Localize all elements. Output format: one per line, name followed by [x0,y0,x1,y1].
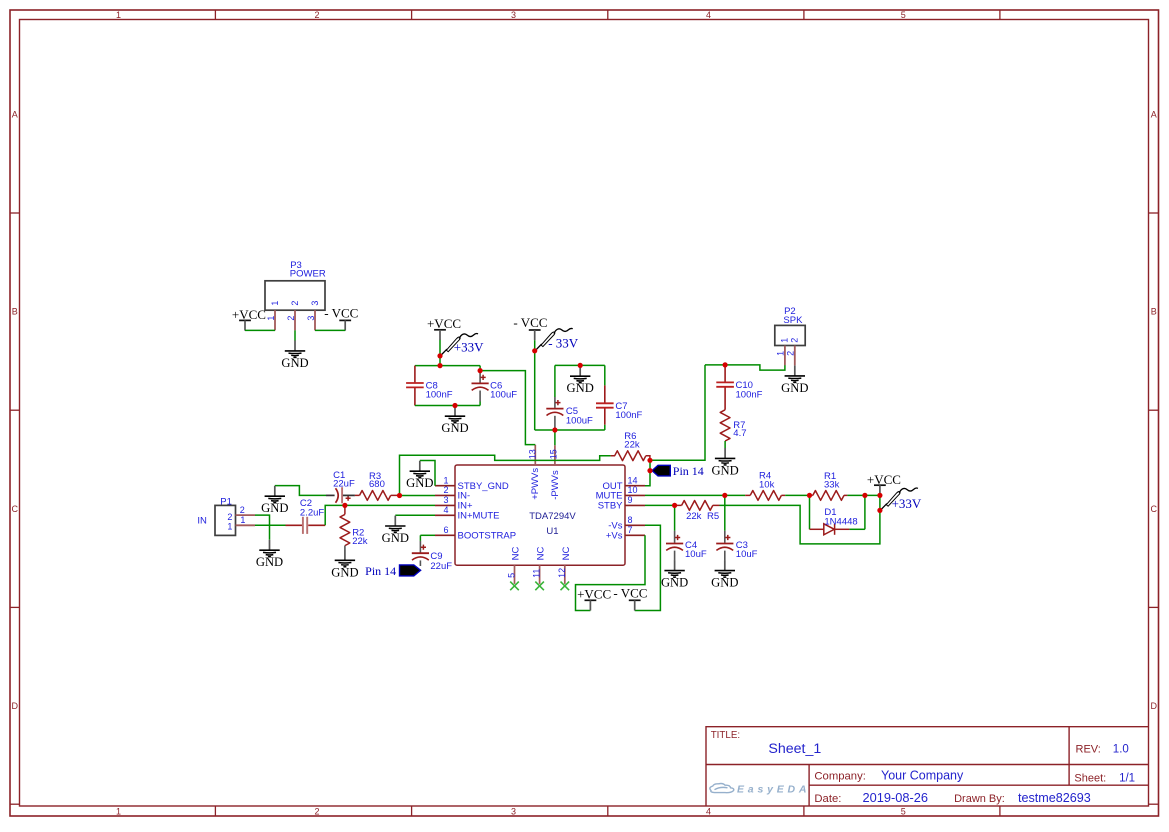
svg-text:2: 2 [286,316,296,321]
resistor R2 leads [344,505,346,514]
svg-text:9: 9 [628,495,633,505]
wire U1 pin1 to ground elbow [420,461,435,486]
svg-text:1: 1 [776,351,786,356]
svg-text:4: 4 [443,505,448,515]
svg-text:Company:: Company: [814,770,866,782]
connector P3 body [265,281,325,310]
svg-text:C: C [11,504,18,514]
junction IN+ node [342,503,347,508]
U1 top pin stubs pins 13,15 [535,445,555,465]
row ticks left/right [10,213,1159,804]
svg-text:6: 6 [443,525,448,535]
wire rail to C6 node [479,366,481,371]
svg-text:3: 3 [511,807,516,817]
resistor R6 body [615,451,646,461]
svg-text:1/1: 1/1 [1119,772,1135,784]
svg-text:22uF: 22uF [333,479,355,490]
svg-text:3: 3 [310,301,320,306]
capacitor C9 [419,535,421,541]
resistor R2 body [340,514,350,545]
power symbol -VCC bottom [613,586,647,611]
svg-text:+VCC: +VCC [232,307,266,322]
wire R6 node to flag [649,460,651,470]
U1 bottom pin stubs pins 5,11,12 [515,565,565,584]
power symbol -VCC top [513,315,547,340]
wire flag node to U1 pin14 [645,471,650,486]
svg-text:10uF: 10uF [736,549,758,560]
wire rail to C7 [604,365,606,385]
svg-text:3: 3 [511,10,516,20]
svg-text:5: 5 [901,10,906,20]
svg-text:12: 12 [557,568,567,578]
svg-text:Sheet:: Sheet: [1074,772,1106,784]
capacitor C1 [326,494,335,496]
power symbol +VCC above C8 [427,316,461,340]
U1 right pin lines pins 14,10,9,8,7 [625,486,645,536]
svg-text:GND: GND [406,476,433,490]
resistor R3 body [360,491,391,501]
wire MUTE node to C3 [724,495,726,530]
svg-text:+33V: +33V [454,339,484,354]
svg-text:GND: GND [567,381,594,395]
junction +VCC probe node [437,353,442,358]
U1 pin names [458,481,624,542]
capacitor C6 plates [472,375,489,391]
svg-text:100nF: 100nF [736,389,763,400]
svg-text:Pin 14: Pin 14 [365,564,396,578]
svg-text:22uF: 22uF [430,561,452,572]
svg-text:- VCC: - VCC [324,305,358,320]
svg-text:3: 3 [443,495,448,505]
wire IN- node to U1 pin2 [400,495,436,497]
svg-text:1: 1 [780,338,790,343]
column numbers [116,10,906,817]
wire D1 left vertical [809,495,811,529]
title block frame [706,727,1149,806]
svg-text:10k: 10k [759,479,775,490]
svg-text:Drawn By:: Drawn By: [954,793,1005,805]
op-amp U1 TDA7294V body [455,465,625,565]
junction MUTE/C3 node [722,493,727,498]
wire IN+ row to U1 pin3 [345,504,435,506]
svg-text:SPK: SPK [783,315,803,326]
svg-text:Your Company: Your Company [881,768,964,782]
svg-text:STBY: STBY [598,501,623,512]
svg-text:+PWVs: +PWVs [530,468,541,500]
ground GND at U1 pin4 [382,516,409,545]
svg-text:10uF: 10uF [685,549,707,560]
svg-text:Pin 14: Pin 14 [673,464,704,478]
svg-text:11: 11 [532,569,542,578]
power symbol +VCC right [867,472,901,495]
svg-text:IN+MUTE: IN+MUTE [458,511,500,522]
svg-text:GND: GND [711,576,738,590]
wire STBY node to C4 [674,505,676,530]
svg-text:B: B [12,307,18,317]
ground GND left of C1 [261,486,288,515]
ground GND under C3 [711,560,738,589]
svg-text:22k: 22k [352,536,368,547]
resistor R5 body [682,501,713,511]
junction bottom rail to pin15 [552,427,557,432]
P2 pin stubs [785,346,795,366]
wire C8/C6 top rail [415,365,480,367]
resistor R4 body [750,491,781,501]
junction top rail GND tap [578,363,583,368]
svg-text:A: A [1151,110,1157,120]
U1 pin numbers [443,475,637,535]
wire C8/C6 bottom rail [415,405,480,407]
capacitor C10 [724,365,726,410]
svg-text:GND: GND [281,356,308,370]
connector P2 body [775,325,805,345]
junction R1/D1 right node [862,493,867,498]
svg-text:GND: GND [661,576,688,590]
svg-text:4.7: 4.7 [733,428,746,439]
voltage probe +33V right [881,488,918,510]
junction C10 top node [723,362,728,367]
wire U1 pin10 MUTE row [645,494,745,496]
wire IN+MUTE to U1 pin4 [395,514,435,516]
svg-text:R5: R5 [707,511,719,522]
ground GND at P2 pin2 [781,366,808,395]
wire C5/C7 top rail [555,364,605,366]
svg-text:1: 1 [266,316,276,321]
svg-text:1: 1 [240,515,245,525]
junction top rail at +VCC [437,363,442,368]
svg-text:10: 10 [628,485,638,495]
svg-text:1: 1 [443,475,448,485]
wire D1 to right vertical [849,528,865,530]
svg-text:NC: NC [536,547,547,561]
resistor R1 body [813,491,844,501]
capacitor C5 plates [546,400,563,416]
svg-text:U1: U1 [546,526,558,537]
svg-text:2019-08-26: 2019-08-26 [863,790,928,805]
svg-text:P1: P1 [220,496,232,507]
svg-text:REV:: REV: [1076,744,1101,756]
ground GND under R2 [331,550,358,579]
svg-text:+VCC: +VCC [867,472,901,487]
svg-text:2: 2 [227,512,232,522]
wire C5/C7 bottom rail [535,429,605,431]
wire P1 pin2 to ground [255,515,270,540]
svg-text:2: 2 [314,10,319,20]
wire rail down to U1 pin15 [554,430,556,445]
svg-text:B: B [1151,307,1157,317]
svg-text:TDA7294V: TDA7294V [529,511,576,522]
svg-text:+33V: +33V [892,496,922,511]
net port flag Pin 14 (right) [652,465,670,476]
junction +VCC node right [877,493,882,498]
ground GND at P1 pin2 [256,540,283,569]
wire R4 to R1 node [785,494,809,496]
svg-text:TITLE:: TITLE: [711,730,740,741]
svg-text:GND: GND [441,421,468,435]
svg-text:testme82693: testme82693 [1018,791,1091,805]
svg-text:8: 8 [628,515,633,525]
svg-text:GND: GND [331,565,358,579]
ground GND at P3 pin2 [281,341,308,370]
wire P2 pin1 to OUT rail [705,365,785,370]
svg-text:D: D [11,701,18,711]
ground GND under R7 [711,448,738,477]
svg-text:15: 15 [549,449,559,459]
wire feedback IN- to R6 [400,455,611,495]
svg-text:1: 1 [116,10,121,20]
svg-text:13: 13 [528,449,538,459]
svg-text:4: 4 [706,807,711,817]
capacitor C10 plates [716,382,734,386]
wire GND elbow to C1 [275,486,326,496]
wire P3 pin3 to -VCC [315,329,345,331]
junction -VCC probe node [532,348,537,353]
resistor R7 body [720,410,730,441]
svg-text:EasyEDA: EasyEDA [737,783,810,795]
EasyEDA logo [710,784,734,793]
svg-text:+VCC: +VCC [577,587,611,602]
svg-text:2: 2 [290,301,300,306]
svg-text:GND: GND [256,555,283,569]
ground GND above C5/C7 [567,366,594,395]
capacitor C3 plates [716,535,733,551]
junction net port node [647,468,652,473]
wire P3 pin1 to +VCC [245,329,275,331]
svg-text:100uF: 100uF [490,389,517,400]
svg-text:100nF: 100nF [615,410,642,421]
wire U1 pin8 -Vs to -VCC [635,525,661,610]
capacitor C7 plates [596,403,614,407]
wire -VCC down to C5/C7 rail [534,340,536,430]
svg-text:2: 2 [785,351,795,356]
svg-text:GND: GND [711,463,738,477]
capacitor C2 [286,524,326,526]
svg-text:- VCC: - VCC [613,586,647,601]
svg-text:IN: IN [197,516,207,527]
wire R6 node up to C10/P2 rail [650,365,705,460]
capacitor C4 plates [666,535,683,551]
wire rail to C5 [554,365,556,397]
ground GND at U1 pin1 [406,461,433,490]
wire U1 pin6 to C9 [420,534,435,536]
svg-text:Date:: Date: [814,793,841,805]
svg-text:NC: NC [511,547,522,561]
wire +VCC down to rail [439,340,441,366]
resistor R1 leads [810,494,848,496]
svg-text:22k: 22k [686,511,702,522]
voltage probe +33V on +VCC [441,333,478,355]
svg-text:680: 680 [369,479,385,490]
svg-text:1.0: 1.0 [1113,744,1129,756]
capacitor C8 [414,366,416,406]
junction probe node right [877,508,882,513]
svg-text:3: 3 [306,316,316,321]
svg-text:+VCC: +VCC [427,316,461,331]
junction R6 output node [647,458,652,463]
P3 pin stubs 1,2,3 [275,310,315,330]
svg-text:Sheet_1: Sheet_1 [768,741,821,757]
resistor R4 leads [745,494,785,496]
svg-text:1: 1 [227,522,232,532]
wire D1 right vertical [864,495,866,529]
power symbol +VCC bottom [577,587,611,611]
resistor R3 leads [355,494,400,496]
ground GND under C4 [661,560,688,589]
svg-text:1: 1 [270,301,280,306]
capacitor C6 [479,371,481,402]
wire STBY pullup path [720,495,880,544]
wire P3 pin2 to ground [294,330,296,340]
svg-text:-PWVs: -PWVs [550,470,561,500]
svg-text:A: A [12,110,18,120]
resistor R5 leads [675,504,720,506]
svg-text:2: 2 [314,807,319,817]
svg-text:+Vs: +Vs [606,531,623,542]
row letters [11,110,1157,712]
svg-text:1: 1 [116,807,121,817]
svg-text:2.2uF: 2.2uF [300,507,324,518]
svg-text:14: 14 [628,475,638,485]
wire C6 bottom tail [479,402,481,406]
svg-text:100uF: 100uF [566,415,593,426]
wire P1 pin1 to C2 [255,524,286,526]
svg-text:C: C [1150,504,1157,514]
svg-text:- VCC: - VCC [513,315,547,330]
svg-text:5: 5 [901,807,906,817]
svg-text:2: 2 [790,338,800,343]
svg-text:D: D [1150,701,1157,711]
svg-text:GND: GND [382,531,409,545]
junction bottom rail node [452,403,457,408]
wire U1 pin7 +Vs to +VCC [576,535,646,610]
capacitor C9 plates [412,545,429,561]
svg-text:4: 4 [706,10,711,20]
svg-text:100nF: 100nF [426,389,453,400]
svg-text:POWER: POWER [290,268,326,279]
svg-text:1N4448: 1N4448 [824,516,857,527]
svg-text:7: 7 [628,525,633,535]
U1 left pin lines pins 1,2,3,4,6 [435,486,455,536]
junction R1/D1 left node [807,493,812,498]
svg-text:BOOTSTRAP: BOOTSTRAP [458,531,517,542]
column ticks top/bottom [215,10,1000,816]
svg-text:NC: NC [561,547,572,561]
wire R7 to ground [724,441,726,448]
ground GND under C8/C6 [441,406,468,435]
wire C2 up to IN+ row [325,505,345,525]
net port flag Pin 14 (left) [400,565,421,576]
wire +VCC rail to U1 pin13 [480,371,535,445]
junction C6 top node [478,368,483,373]
svg-text:33k: 33k [824,479,840,490]
U1 NC no-connect X marks [510,582,569,591]
junction IN- node [397,493,402,498]
svg-text:2: 2 [240,505,245,515]
P1 pin lines [236,515,256,525]
wire C7 to bottom rail [604,425,606,430]
junction STBY/C4 node [672,503,677,508]
power symbol -VCC at P3 pin3 [324,305,358,330]
svg-text:GND: GND [261,501,288,515]
svg-text:- 33V: - 33V [548,335,579,350]
wire U1 pin9 STBY row [645,504,677,506]
svg-text:2: 2 [443,485,448,495]
power symbol +VCC at P3 pin1 [232,307,266,330]
svg-text:5: 5 [507,573,517,578]
connector P1 body [215,505,236,535]
resistor R6 leads [611,456,650,461]
svg-text:22k: 22k [624,440,640,451]
diode D1 [810,524,850,535]
capacitor C8 plates [406,383,424,387]
wire R1 to +VCC node [847,494,880,496]
svg-text:GND: GND [781,381,808,395]
voltage probe -33V on -VCC [535,328,572,350]
